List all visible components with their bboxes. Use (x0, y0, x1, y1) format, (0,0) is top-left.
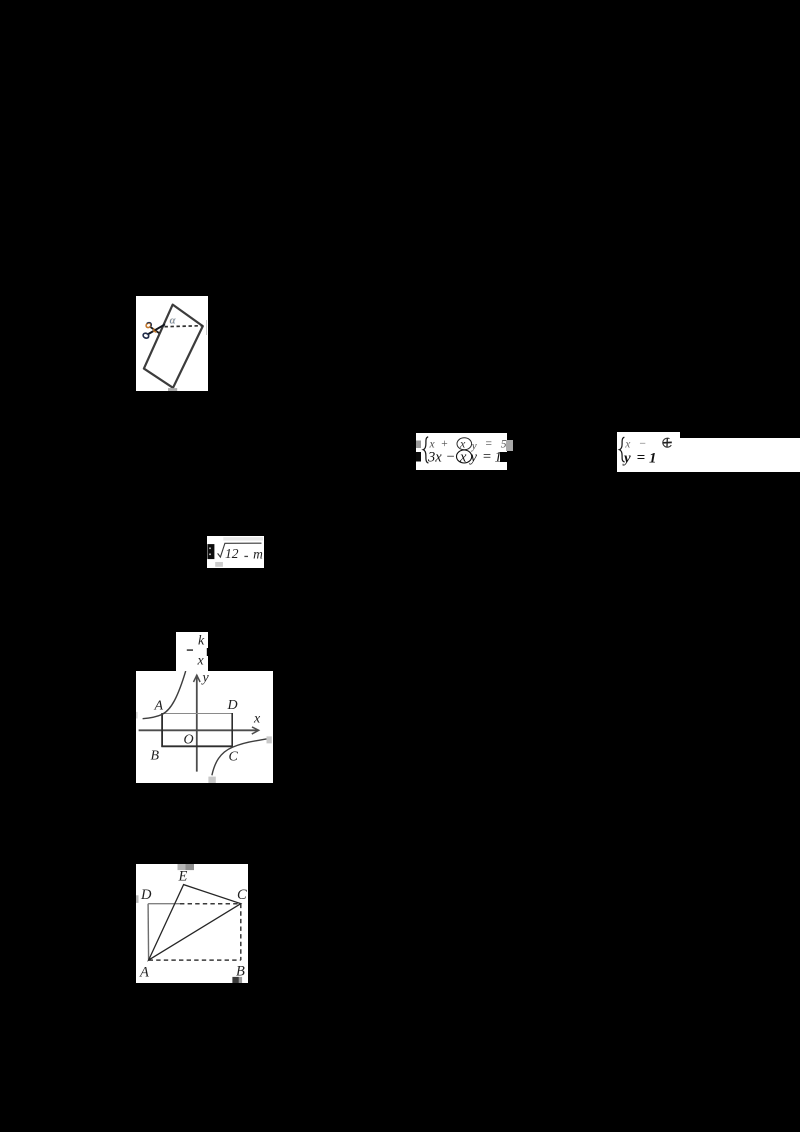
left edge sliver (136, 895, 138, 903)
figure: paper with scissors (136, 296, 208, 391)
gray squares (208, 777, 215, 784)
svg-text:=: = (636, 450, 645, 466)
graph of hyperbola with rectangle ABCD (136, 671, 273, 783)
svg-text:x: x (196, 653, 204, 668)
bottom right dark square (232, 977, 238, 984)
sqrt(12-m) (207, 536, 264, 567)
svg-text:x: x (624, 438, 631, 450)
y axis (195, 675, 197, 771)
solid left side DA (147, 903, 149, 959)
svg-text:A: A (153, 699, 163, 714)
gray top bar (177, 864, 185, 870)
scissors (142, 322, 165, 339)
rectangle ABCD (162, 713, 232, 715)
svg-text:α: α (169, 315, 175, 327)
solid top D to AE crossing (148, 902, 180, 904)
svg-text:12: 12 (225, 546, 239, 561)
svg-text:D: D (140, 887, 152, 903)
svg-text:y: y (622, 450, 631, 466)
equation 1 right gray strip (507, 440, 513, 451)
svg-text:1: 1 (649, 450, 657, 466)
svg-text:D: D (226, 698, 237, 713)
geometry figure ABCDE (136, 864, 248, 984)
svg-text:y: y (200, 671, 209, 685)
hyperbola top-left branch (142, 671, 185, 719)
svg-text:x: x (253, 712, 261, 727)
svg-text:−: − (638, 438, 646, 450)
svg-text:3x: 3x (427, 449, 442, 465)
equation 1 right black notch (500, 452, 513, 462)
fig1 right edge gray bar (206, 320, 208, 335)
svg-text:B: B (150, 749, 159, 764)
triangle AEC (148, 884, 240, 959)
svg-text:k: k (198, 633, 205, 648)
x axis (138, 729, 258, 731)
dashed DC (180, 902, 241, 904)
labels (139, 868, 247, 980)
hyperbola bottom-right branch (212, 739, 267, 775)
svg-text:C: C (228, 750, 238, 765)
svg-text:m: m (254, 547, 264, 562)
svg-text:E: E (177, 868, 187, 884)
svg-text:O: O (183, 733, 193, 748)
equation 2 (617, 432, 681, 472)
dashed AB (148, 959, 240, 961)
dashed cut line (164, 326, 202, 327)
svg-text:A: A (139, 964, 149, 980)
fraction -k/x (176, 632, 208, 672)
svg-text:−: − (445, 449, 455, 465)
svg-text:C: C (237, 887, 247, 903)
equation system 1 (416, 433, 507, 471)
dashed BC (239, 903, 241, 959)
bottom gray mark (168, 388, 177, 391)
labels (150, 671, 260, 765)
svg-text:=: = (482, 449, 492, 465)
tilted paper rectangle (143, 305, 202, 388)
